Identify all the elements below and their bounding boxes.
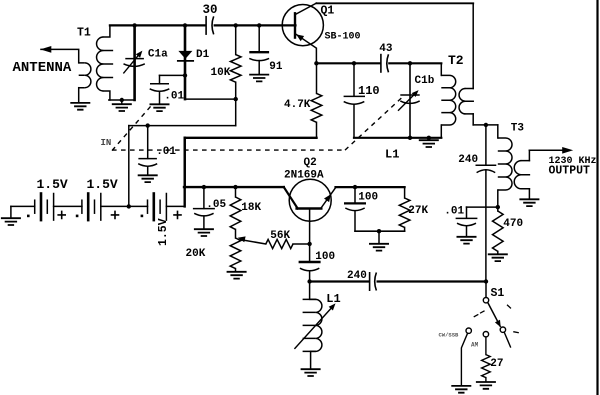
- ground 91: [249, 75, 269, 82]
- ground S1 left: [451, 386, 471, 393]
- wire T1 primary to ground: [78, 88, 80, 102]
- svg-text:470: 470: [503, 218, 523, 230]
- capacitor 91: [258, 25, 260, 52]
- dashed gang link horizontal: [112, 149, 345, 151]
- wire ground stub: [121, 100, 123, 104]
- node 18K top: [233, 185, 237, 189]
- battery B3 1.5V: [147, 200, 149, 213]
- switch S1 arm: [488, 302, 501, 326]
- wire bias down: [235, 99, 237, 126]
- transistor Q2 emitter arrow: [324, 194, 331, 202]
- capacitor C1b arrowhead: [412, 90, 419, 97]
- svg-text:100: 100: [358, 192, 378, 204]
- node 91 top: [257, 23, 261, 27]
- resistor 10K: [235, 25, 237, 54]
- transformer T2 secondary: [459, 89, 465, 114]
- wire collector rail: [316, 62, 380, 64]
- svg-text:1.5V: 1.5V: [37, 177, 68, 192]
- junction T1 ground tap: [120, 98, 124, 102]
- wire D1 bottom to 10K bottom: [185, 98, 236, 100]
- svg-text:240: 240: [347, 270, 367, 282]
- transformer T1 secondary winding: [103, 25, 110, 37]
- resistor 18K: [235, 187, 237, 197]
- diode D1: [184, 25, 187, 99]
- capacitor C1a variable: [133, 25, 136, 100]
- capacitor 110: [353, 63, 355, 96]
- ground .05: [194, 229, 214, 236]
- svg-text:.01: .01: [164, 91, 184, 103]
- svg-text:30: 30: [203, 3, 218, 17]
- node C1b top: [408, 61, 412, 65]
- transistor Q2 circle: [289, 179, 331, 221]
- svg-text:.05: .05: [206, 199, 226, 211]
- capacitor C1b variable: [409, 63, 411, 138]
- node .05 tap: [202, 185, 206, 189]
- capacitor .05: [203, 187, 205, 208]
- svg-text:T1: T1: [77, 27, 91, 40]
- capacitor 240 shunt: [485, 125, 487, 165]
- switch S1 mid throw wire: [485, 337, 487, 355]
- svg-text:20K: 20K: [186, 248, 206, 260]
- node D1 junction: [183, 73, 187, 77]
- svg-text:110: 110: [358, 84, 380, 98]
- svg-text:IN: IN: [101, 138, 112, 148]
- svg-text:L1: L1: [385, 147, 399, 161]
- pot wiper arrow line: [241, 240, 266, 244]
- svg-text:OUTPUT: OUTPUT: [549, 164, 591, 177]
- transformer T1 primary winding: [85, 63, 91, 88]
- switch S1 throw right contact: [500, 327, 505, 332]
- wire 56K to base node: [293, 243, 310, 245]
- switch S1 pole contact: [483, 298, 488, 303]
- transformer T2 primary: [440, 63, 442, 75]
- battery minus marks: [27, 215, 30, 218]
- resistor 27: [482, 355, 491, 378]
- pot wiper arrowhead: [238, 236, 246, 242]
- wire riser joint: [183, 138, 185, 187]
- node 10K top: [234, 23, 238, 27]
- switch S1 left throw wire: [461, 333, 467, 385]
- resistor 27K: [404, 187, 406, 198]
- wire battery positive riser: [183, 138, 185, 207]
- ground emitter network: [369, 244, 389, 251]
- ground tank: [419, 140, 439, 147]
- node S1 top: [484, 279, 488, 283]
- ground T1 primary: [70, 103, 90, 110]
- transistor Q2 base bar: [297, 207, 322, 209]
- svg-text:S1: S1: [491, 287, 505, 300]
- transistor Q2 emitter: [321, 187, 336, 208]
- resistor 4.7K: [316, 63, 318, 93]
- ground .01 right: [457, 237, 477, 244]
- wire tank gnd stub: [428, 138, 430, 140]
- switch S1 motion dashes: [474, 305, 518, 332]
- wire Q1 top rail: [316, 2, 473, 4]
- dashed gang link right diagonal: [345, 95, 405, 150]
- inductor L1 variable: [310, 282, 316, 300]
- svg-text:91: 91: [269, 61, 283, 73]
- capacitor 30 inline: [205, 16, 207, 35]
- svg-text:240: 240: [458, 154, 478, 166]
- ground .01 top: [150, 104, 170, 111]
- svg-text:1.5V: 1.5V: [157, 218, 170, 246]
- wire tank bottom rail: [354, 137, 441, 139]
- svg-text:56K: 56K: [270, 230, 290, 242]
- node 240 top: [484, 123, 488, 127]
- wire bottom rail: [310, 280, 369, 282]
- ground 27: [476, 382, 496, 389]
- svg-text:2N169A: 2N169A: [284, 170, 324, 182]
- svg-text:1.5V: 1.5V: [87, 177, 118, 192]
- ground L1: [301, 369, 321, 376]
- node bias: [234, 97, 238, 101]
- svg-text:4.7K: 4.7K: [284, 99, 311, 111]
- svg-text:.01: .01: [444, 206, 464, 218]
- wire bias to battery: [128, 126, 130, 207]
- wire Q2 base rail: [184, 186, 284, 188]
- node Q1 emitter junction: [314, 61, 318, 65]
- wire battery ground stub: [10, 206, 12, 217]
- transistor Q2 collector: [284, 187, 298, 208]
- transistor Q2 base lead: [309, 209, 311, 244]
- transistor Q1 emitter arrow: [296, 34, 304, 41]
- switch S1 mid contact: [483, 332, 488, 337]
- node C1a top: [132, 23, 136, 27]
- node Q2 base junction: [307, 242, 311, 246]
- resistor 470: [497, 207, 499, 211]
- wire antenna lead: [41, 49, 79, 63]
- antenna arrowhead: [40, 46, 51, 53]
- node emitter gnd tap: [377, 229, 381, 233]
- svg-text:SB-100: SB-100: [325, 31, 361, 42]
- inductor L1 arrow line: [295, 307, 332, 348]
- ground T1 secondary: [112, 104, 132, 111]
- ground T3 secondary: [519, 199, 539, 206]
- ground battery: [1, 218, 21, 225]
- transistor Q1 collector: [295, 3, 316, 15]
- switch S1 right tail: [504, 332, 510, 347]
- wire D1 to .01: [160, 74, 186, 76]
- svg-text:.01: .01: [156, 146, 176, 158]
- capacitor .01 mid: [147, 126, 149, 159]
- svg-text:43: 43: [379, 43, 393, 55]
- capacitor .01 right: [466, 207, 468, 218]
- wire T3 bottom: [467, 206, 498, 208]
- svg-text:T2: T2: [448, 53, 464, 68]
- wire battery chain: [11, 205, 185, 207]
- wire T1 secondary bottom: [109, 99, 135, 101]
- capacitor 43 inline: [380, 54, 382, 73]
- wire output: [529, 149, 562, 151]
- wire top rail left: [110, 24, 205, 26]
- wire emitter gnd stub: [378, 231, 380, 243]
- wire top rail right: [215, 24, 296, 26]
- node D1 top: [183, 23, 187, 27]
- battery plus marks: [58, 211, 65, 218]
- capacitor 100 emitter: [354, 187, 356, 203]
- node battery tap: [127, 204, 131, 208]
- wire S1 stem: [485, 282, 487, 298]
- wire bias left: [129, 125, 236, 127]
- node L1 top: [307, 279, 311, 283]
- node T3 bottom junction: [496, 205, 500, 209]
- node tank ground tap: [427, 136, 431, 140]
- wire emitter network bottom: [355, 230, 405, 232]
- svg-text:27K: 27K: [408, 205, 428, 217]
- svg-text:CW/SSB: CW/SSB: [439, 332, 460, 339]
- node 110 top: [352, 61, 356, 65]
- dashed gang link left diagonal: [112, 104, 153, 151]
- capacitor 100 base: [309, 244, 311, 262]
- svg-text:AM: AM: [471, 342, 479, 349]
- svg-text:L1: L1: [326, 292, 340, 306]
- wire T2 secondary feed: [472, 3, 474, 88]
- svg-text:Q2: Q2: [304, 157, 317, 169]
- ground 20K: [227, 272, 247, 279]
- output arrowhead: [562, 147, 573, 154]
- svg-text:C1a: C1a: [148, 49, 168, 61]
- svg-text:C1b: C1b: [415, 75, 435, 87]
- svg-text:ANTENNA: ANTENNA: [13, 60, 72, 76]
- svg-text:10K: 10K: [211, 67, 231, 79]
- wire feed to 4.7K: [185, 137, 317, 139]
- node C1b bottom: [408, 136, 412, 140]
- svg-text:27: 27: [490, 358, 503, 370]
- svg-text:Q1: Q1: [321, 4, 335, 17]
- node 100 emitter top: [353, 185, 357, 189]
- svg-text:T3: T3: [511, 123, 525, 135]
- switch S1 left contact: [466, 328, 471, 333]
- switch S1 arm arrowhead: [495, 320, 501, 328]
- svg-text:100: 100: [315, 251, 335, 263]
- battery B1 1.5V: [34, 200, 36, 213]
- transistor Q1 circle: [282, 5, 323, 46]
- resistor 56K: [266, 239, 293, 248]
- wire Q2 emitter rail: [336, 186, 405, 188]
- battery B2 1.5V: [81, 200, 83, 213]
- inductor L1 arrowhead: [329, 303, 336, 310]
- svg-text:D1: D1: [196, 49, 210, 61]
- transistor Q1 emitter: [295, 34, 316, 64]
- page edge line: [596, 0, 598, 395]
- node .01 mid tap: [146, 123, 150, 127]
- transformer T3 secondary: [528, 150, 530, 160]
- svg-text:18K: 18K: [241, 202, 261, 214]
- capacitor C1a arrowhead: [136, 51, 143, 58]
- capacitor .01 top: [159, 75, 161, 83]
- capacitor 240 inline: [369, 272, 371, 291]
- wire T2 to T3: [473, 124, 498, 126]
- transformer T3 primary: [497, 125, 499, 138]
- ground 470: [488, 254, 508, 261]
- ground .01 mid: [138, 175, 158, 182]
- transistor Q1 base bar: [294, 13, 296, 37]
- resistor 20K pot: [235, 229, 237, 238]
